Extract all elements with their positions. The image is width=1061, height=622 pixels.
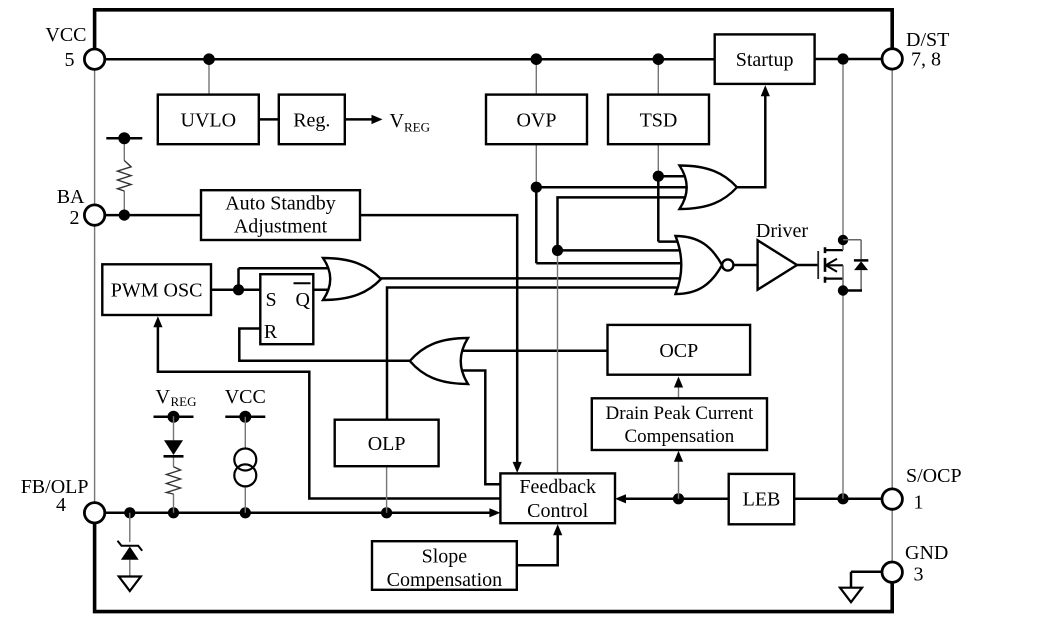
node rail UVLO junction — [203, 53, 215, 65]
wire Feedback Control to OR3 — [440, 371, 500, 485]
svg-text:5: 5 — [65, 49, 75, 71]
box Drain Peak Current Compensation — [592, 398, 767, 450]
box OLP — [335, 420, 439, 467]
node LEB junction — [673, 493, 684, 504]
latch SR U2 — [260, 274, 313, 344]
box OCP — [608, 325, 751, 375]
IC border top — [95, 10, 893, 50]
wire OLP to FB rail — [386, 466, 388, 513]
wire OVP net vertical — [536, 187, 692, 263]
svg-text:Reg.: Reg. — [293, 109, 330, 131]
supply rail VREG — [154, 411, 194, 423]
wire UVLO stub — [208, 59, 210, 94]
svg-text:7, 8: 7, 8 — [911, 49, 941, 71]
diode D1 body — [843, 240, 868, 291]
svg-text:TSD: TSD — [640, 109, 678, 131]
svg-text:R: R — [264, 321, 278, 343]
ground FB — [119, 577, 141, 592]
wire ASA to Feedback Control — [360, 215, 522, 473]
svg-text:S/OCP: S/OCP — [906, 465, 962, 487]
wire TSD net vertical — [658, 176, 690, 241]
pin VCC 5 — [45, 24, 104, 71]
svg-text:Compensation: Compensation — [387, 569, 503, 591]
svg-text:VCC: VCC — [45, 24, 86, 46]
pin D/ST 7 8 — [882, 29, 949, 71]
IC border bottom — [95, 523, 893, 612]
svg-text:3: 3 — [914, 564, 924, 586]
svg-text:Q: Q — [296, 289, 311, 311]
pin FB/OLP 4 — [21, 476, 105, 523]
wire FB rail — [105, 508, 501, 517]
pin S/OCP 1 — [882, 465, 962, 514]
wire junction to DPCC arrow — [674, 451, 683, 499]
svg-text:2: 2 — [70, 207, 80, 229]
node drain rail junction — [837, 53, 848, 64]
wire Feedback Control to PWM OSC — [153, 316, 500, 498]
svg-text:OLP: OLP — [368, 433, 406, 455]
box Auto Standby Adjustment — [201, 190, 360, 240]
wire Reg to VREG arrow — [345, 115, 383, 124]
svg-text:Slope: Slope — [422, 546, 468, 568]
svg-text:LEB: LEB — [743, 489, 781, 511]
wire zener branch — [129, 513, 131, 577]
svg-text:Compensation: Compensation — [625, 426, 735, 447]
wire GND pin to ground — [851, 572, 882, 588]
wire Slope Compensation to Feedback Control — [517, 524, 563, 565]
pin GND 3 — [882, 542, 948, 586]
wire OLP branch to NOR — [387, 288, 690, 421]
svg-text:UVLO: UVLO — [181, 109, 237, 131]
or-gate U3 OVP TSD — [680, 166, 738, 210]
box PWM OSC — [102, 264, 211, 315]
box LEB — [729, 474, 795, 524]
driver U7 — [756, 220, 809, 290]
wire latch feedback net x557 — [558, 197, 695, 473]
nor-gate U4 — [676, 236, 734, 294]
svg-text:Control: Control — [527, 500, 589, 522]
wire resistor BA stubs — [123, 138, 125, 215]
node latch feedback junction — [552, 245, 563, 256]
wire OR2 output to NOR — [381, 277, 690, 280]
IC border right thin — [891, 69, 893, 562]
node OVP junction — [531, 182, 542, 193]
box Reg — [279, 95, 345, 145]
node FB junction VREG — [168, 507, 179, 518]
wire TSD stub — [657, 59, 659, 176]
svg-text:Startup: Startup — [736, 49, 794, 71]
node rail OVP junction — [531, 53, 543, 65]
node rail TSD junction — [653, 53, 665, 65]
wire S branch to OR2 — [239, 268, 336, 290]
box Feedback Control — [500, 473, 615, 523]
wire MOSFET source rail — [842, 290, 844, 499]
box TSD — [608, 95, 709, 145]
label VREG supply — [156, 386, 197, 409]
wire UVLO to Reg — [259, 118, 279, 121]
svg-text:4: 4 — [56, 494, 66, 516]
wire OVP stub — [535, 59, 537, 187]
svg-text:Auto Standby: Auto Standby — [225, 193, 336, 215]
svg-text:PWM OSC: PWM OSC — [111, 280, 203, 302]
wire PWM OSC to latch S — [211, 289, 260, 292]
wire Qbar to OR2 — [313, 289, 335, 292]
zener D2 — [118, 541, 143, 560]
svg-text:OCP: OCP — [659, 340, 698, 362]
IC border left thin — [94, 69, 96, 502]
svg-text:BA: BA — [57, 186, 85, 208]
svg-text:Feedback: Feedback — [519, 476, 596, 498]
svg-text:OVP: OVP — [516, 109, 556, 131]
wire DPCC to OCP arrow — [674, 377, 683, 399]
wire LEB to Feedback Control — [615, 494, 729, 503]
label VCC supply — [225, 386, 266, 408]
or-gate U6 reset — [410, 338, 468, 384]
svg-text:V: V — [156, 386, 171, 408]
node FB junction OLP — [381, 507, 392, 518]
node FB junction VCC — [240, 507, 251, 518]
wire VCC rail y=59 — [105, 58, 882, 61]
or-gate U5 PWM — [323, 258, 381, 300]
wire NOR to Driver — [733, 264, 757, 267]
wire MOSFET drain rail — [842, 59, 844, 239]
diode D3 — [164, 440, 184, 456]
resistor R2 — [167, 467, 181, 494]
svg-text:Driver: Driver — [756, 220, 809, 242]
box Startup — [715, 34, 815, 84]
wire OR1 to Startup — [737, 85, 770, 187]
svg-text:Adjustment: Adjustment — [234, 216, 328, 238]
box Slope Compensation — [372, 541, 517, 591]
node FB junction zener — [124, 507, 135, 518]
svg-text:GND: GND — [905, 542, 948, 564]
svg-text:Drain Peak Current: Drain Peak Current — [606, 403, 754, 424]
current source I1 — [234, 449, 256, 487]
label VREG output — [390, 110, 431, 135]
box UVLO — [158, 95, 259, 145]
supply rail VCC2 — [225, 411, 265, 423]
svg-text:S: S — [266, 289, 277, 311]
svg-text:FB/OLP: FB/OLP — [21, 476, 89, 498]
transistor Q1 — [818, 240, 843, 291]
wire BA net — [105, 214, 201, 217]
node TSD junction — [653, 171, 664, 182]
svg-text:REG: REG — [404, 120, 430, 135]
node SOCP junction — [837, 493, 848, 504]
supply rail BA — [106, 132, 142, 144]
node BA junction — [119, 210, 130, 221]
svg-text:V: V — [390, 110, 405, 132]
box OVP — [486, 95, 587, 145]
pin BA 2 — [57, 186, 105, 229]
wire VREG branch — [173, 416, 175, 513]
ground GND pin — [840, 588, 862, 603]
wire OR3 to latch R — [239, 329, 410, 361]
wire VCC branch — [244, 417, 246, 513]
node drain junction — [838, 235, 848, 245]
svg-text:VCC: VCC — [225, 386, 266, 408]
svg-text:REG: REG — [171, 394, 197, 409]
wire Driver to gate — [797, 264, 819, 267]
node source junction — [838, 285, 848, 295]
node PWM junction — [233, 284, 244, 295]
wire SOCP to LEB — [794, 498, 882, 501]
resistor R1 — [118, 161, 132, 192]
svg-text:1: 1 — [914, 492, 924, 514]
wire OCP to OR3 — [440, 349, 608, 352]
